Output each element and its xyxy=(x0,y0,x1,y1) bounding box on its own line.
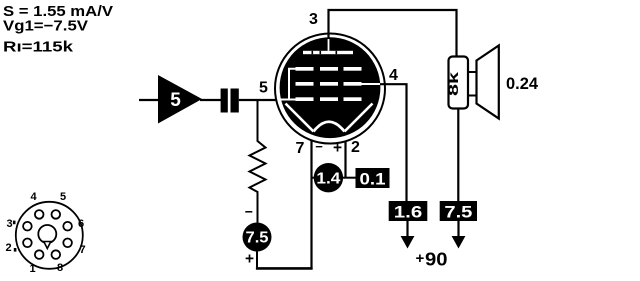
svg-text:4: 4 xyxy=(30,191,37,203)
svg-text:8: 8 xyxy=(57,262,63,274)
svg-text:+: + xyxy=(245,251,254,268)
svg-text:Vg1=−7.5V: Vg1=−7.5V xyxy=(3,18,88,35)
svg-text:−: − xyxy=(315,139,323,154)
svg-text:5: 5 xyxy=(170,90,181,111)
svg-text:90: 90 xyxy=(425,250,448,270)
svg-text:2: 2 xyxy=(5,242,11,254)
svg-text:5: 5 xyxy=(259,80,268,97)
svg-text:Rı=115k: Rı=115k xyxy=(3,39,74,56)
svg-text:5: 5 xyxy=(60,191,66,203)
svg-text:+: + xyxy=(333,140,342,157)
svg-text:7.5: 7.5 xyxy=(444,203,472,222)
svg-text:7: 7 xyxy=(296,140,305,157)
svg-text:2: 2 xyxy=(351,139,360,156)
svg-text:1: 1 xyxy=(29,263,35,275)
svg-text:7: 7 xyxy=(79,244,85,256)
svg-text:3: 3 xyxy=(6,218,12,230)
svg-text:0.24: 0.24 xyxy=(506,74,539,93)
svg-text:0.1: 0.1 xyxy=(360,170,386,189)
svg-text:7.5: 7.5 xyxy=(246,230,269,247)
svg-text:1.6: 1.6 xyxy=(394,203,423,222)
svg-text:8k: 8k xyxy=(445,72,461,96)
svg-text:+: + xyxy=(416,250,425,267)
svg-text:4: 4 xyxy=(389,67,398,84)
svg-text:1.4: 1.4 xyxy=(316,170,340,187)
svg-text:3: 3 xyxy=(309,11,318,28)
svg-text:6: 6 xyxy=(78,218,84,230)
svg-text:−: − xyxy=(245,204,253,220)
